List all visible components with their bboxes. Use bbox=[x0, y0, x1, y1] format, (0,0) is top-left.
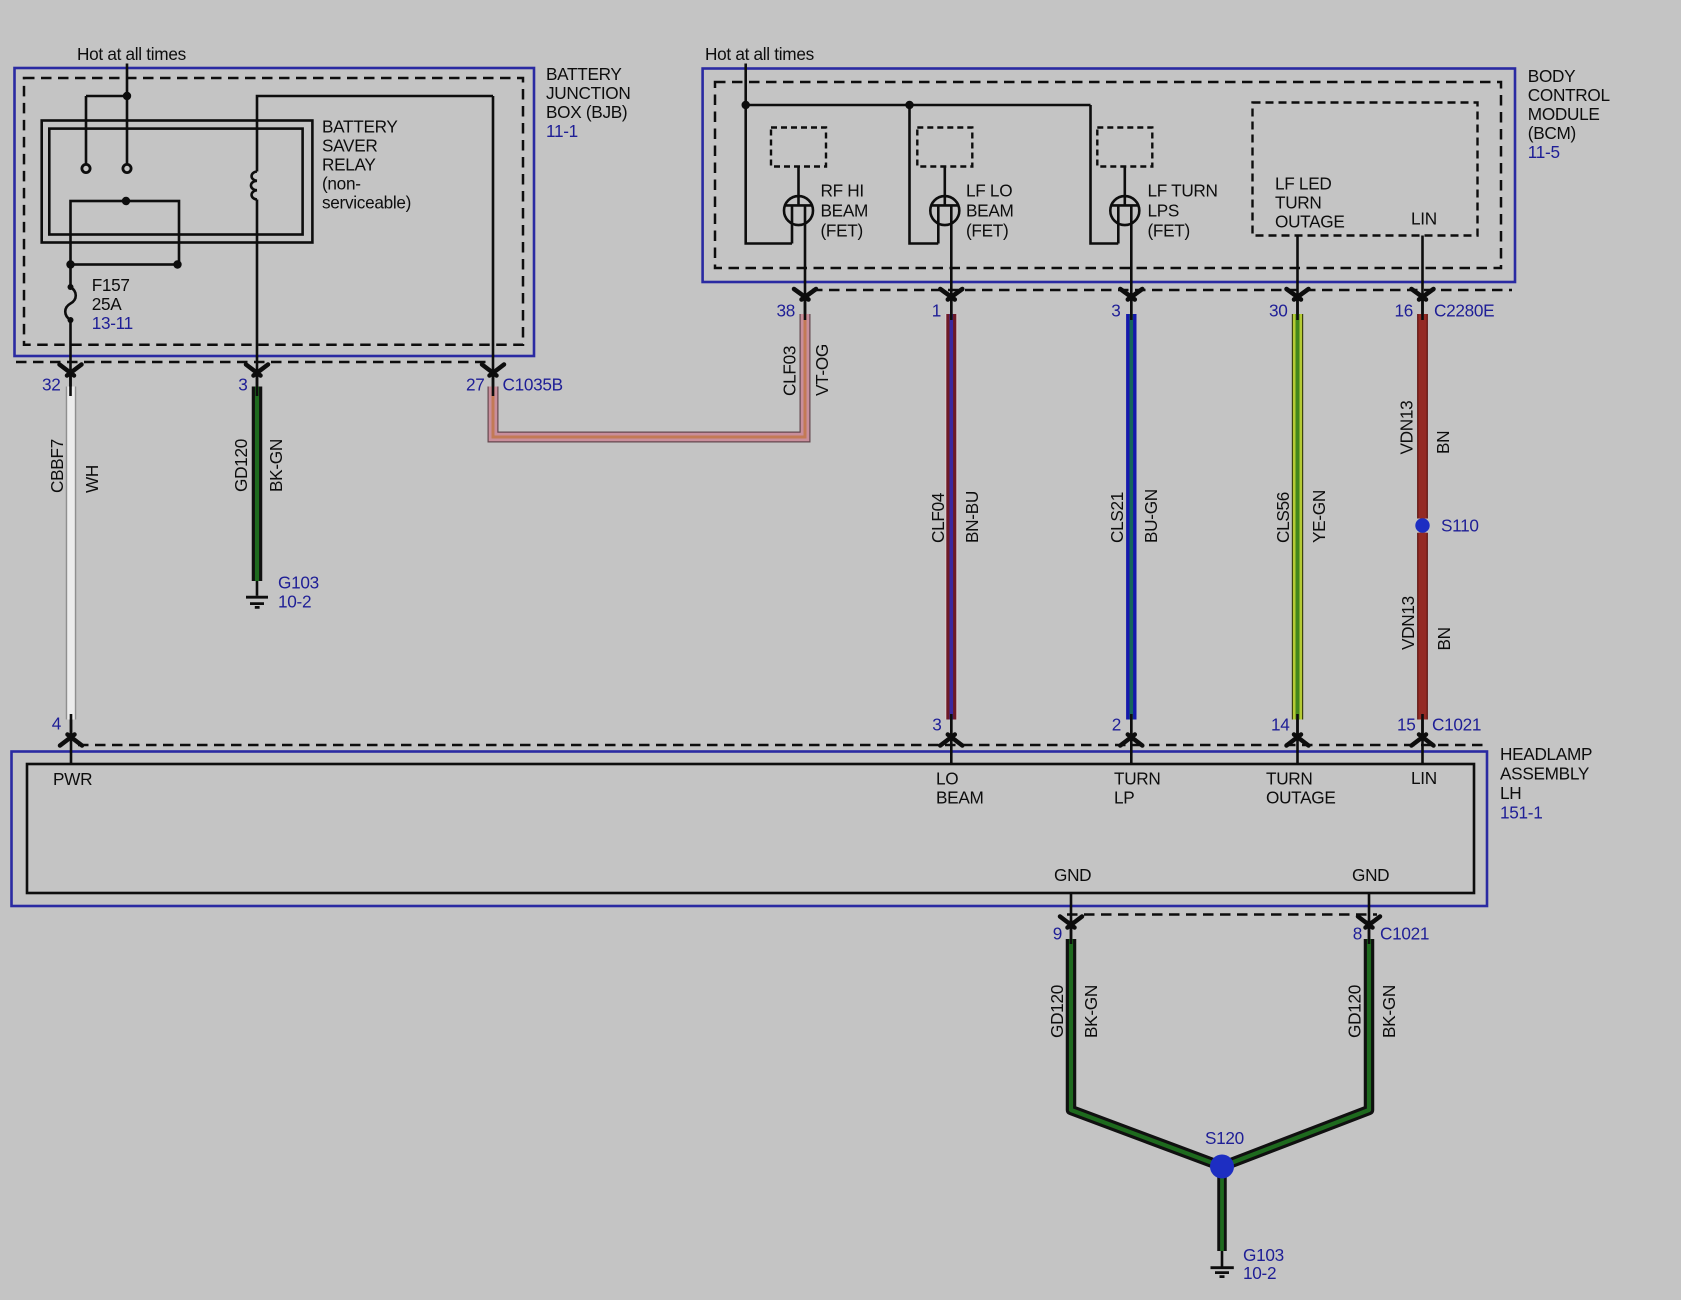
wire: source feed FET1 bbox=[746, 105, 792, 244]
svg-text:S110: S110 bbox=[1441, 516, 1479, 536]
body control module (BCM) blue enclosure bbox=[703, 69, 1515, 283]
splice S120 bbox=[1210, 1155, 1234, 1179]
stub: pin 3 to interior bbox=[950, 720, 953, 765]
svg-text:13-11: 13-11 bbox=[92, 313, 133, 333]
svg-text:BOX (BJB): BOX (BJB) bbox=[546, 102, 627, 122]
connector row BCM dashed bbox=[812, 289, 1512, 292]
svg-text:OUTAGE: OUTAGE bbox=[1266, 788, 1336, 808]
GND connector dashed row bbox=[1067, 913, 1377, 916]
svg-text:8: 8 bbox=[1353, 924, 1362, 944]
svg-text:GND: GND bbox=[1054, 865, 1091, 885]
svg-text:C1021: C1021 bbox=[1432, 715, 1481, 735]
svg-text:11-1: 11-1 bbox=[546, 121, 578, 141]
gate control dashed box FET3 bbox=[1097, 128, 1152, 167]
relay contact terminal right bbox=[123, 164, 131, 172]
wire: battery feed into BJB bbox=[126, 64, 129, 97]
wire: fuse to pin 32 bbox=[69, 320, 72, 387]
splice S110 bbox=[1415, 518, 1429, 532]
battery junction box (BJB) blue enclosure bbox=[15, 68, 535, 356]
FET LF TURN LPS (output driver) bbox=[1110, 196, 1139, 243]
headlamp connector dashed row bbox=[78, 744, 1483, 747]
svg-text:CLF03: CLF03 bbox=[780, 346, 800, 396]
wire: LIN output to pin 16 bbox=[1421, 236, 1424, 315]
svg-text:(FET): (FET) bbox=[966, 221, 1008, 241]
svg-text:OUTAGE: OUTAGE bbox=[1275, 212, 1345, 232]
svg-text:LP: LP bbox=[1114, 788, 1134, 808]
svg-text:PWR: PWR bbox=[53, 769, 92, 789]
svg-text:BU-GN: BU-GN bbox=[1141, 489, 1161, 543]
svg-text:BN-BU: BN-BU bbox=[962, 491, 982, 543]
pin 2 arrow bbox=[1120, 735, 1142, 746]
pin 3 arrow (headlamp) bbox=[940, 735, 962, 746]
svg-text:LPS: LPS bbox=[1148, 201, 1180, 221]
pin 38 arrow bbox=[794, 289, 816, 300]
FET LF LO BEAM (output driver) bbox=[930, 196, 959, 243]
svg-text:MODULE: MODULE bbox=[1528, 104, 1600, 124]
wire: source feed FET3 bbox=[1091, 105, 1119, 244]
headlamp assembly LH blue enclosure bbox=[12, 752, 1488, 907]
BJB dashed boundary bbox=[24, 78, 523, 345]
pin 9 arrow bbox=[1060, 917, 1082, 928]
svg-text:C2280E: C2280E bbox=[1434, 301, 1494, 321]
wire: FET3 drain to pin 3 bbox=[1130, 205, 1133, 314]
wire: S120 to G103 tail bbox=[1217, 1167, 1227, 1252]
wire GD120 BK-GN: pin 3 to G103 bbox=[252, 387, 263, 582]
wire CLS56 YE-GN: BCM pin 30 to headlamp pin 14 bbox=[1292, 314, 1303, 720]
svg-text:151-1: 151-1 bbox=[1500, 803, 1542, 823]
svg-text:WH: WH bbox=[82, 465, 102, 493]
pin 4 arrow bbox=[60, 735, 82, 746]
wire VDN13 BN upper: BCM pin 16 to S110 bbox=[1417, 314, 1428, 519]
wire CLS21 BU-GN: BCM pin 3 to headlamp pin 2 bbox=[1126, 314, 1136, 720]
svg-text:BK-GN: BK-GN bbox=[1379, 985, 1399, 1038]
FET LF LO BEAM gate lead bbox=[943, 167, 946, 206]
pin 8 arrow bbox=[1358, 917, 1380, 928]
svg-text:BEAM: BEAM bbox=[821, 201, 869, 221]
svg-text:BN: BN bbox=[1434, 627, 1454, 650]
svg-text:SAVER: SAVER bbox=[322, 136, 378, 156]
svg-text:ASSEMBLY: ASSEMBLY bbox=[1500, 764, 1590, 784]
svg-text:3: 3 bbox=[1111, 301, 1120, 321]
svg-text:15: 15 bbox=[1397, 715, 1416, 735]
LF LED TURN OUTAGE dashed module box bbox=[1253, 103, 1478, 236]
svg-text:LH: LH bbox=[1500, 783, 1521, 803]
svg-text:LIN: LIN bbox=[1411, 768, 1437, 788]
headlamp assembly inner box bbox=[27, 764, 1474, 893]
svg-text:CLS21: CLS21 bbox=[1107, 492, 1127, 543]
wire: FET2 drain to pin 1 bbox=[950, 205, 953, 314]
svg-text:JUNCTION: JUNCTION bbox=[546, 83, 631, 103]
pin 16 arrow bbox=[1412, 289, 1434, 300]
svg-text:30: 30 bbox=[1269, 301, 1288, 321]
wire: pin 27 riser bbox=[492, 96, 495, 387]
svg-text:RELAY: RELAY bbox=[322, 155, 376, 175]
svg-text:(FET): (FET) bbox=[821, 221, 863, 241]
svg-text:BK-GN: BK-GN bbox=[266, 439, 286, 492]
BCM dashed boundary bbox=[715, 82, 1501, 268]
FET RF HI BEAM gate lead bbox=[797, 167, 800, 206]
svg-text:serviceable): serviceable) bbox=[322, 193, 411, 213]
svg-text:TURN: TURN bbox=[1275, 193, 1322, 213]
svg-text:VDN13: VDN13 bbox=[1398, 596, 1418, 650]
connector row BJB dashed bbox=[16, 361, 490, 364]
stub: GND right bbox=[1368, 893, 1371, 939]
svg-text:GD120: GD120 bbox=[231, 439, 251, 492]
stub: GND left bbox=[1070, 893, 1073, 939]
svg-text:(BCM): (BCM) bbox=[1528, 123, 1576, 143]
svg-text:10-2: 10-2 bbox=[278, 592, 311, 612]
svg-text:CONTROL: CONTROL bbox=[1528, 85, 1610, 105]
svg-text:VT-OG: VT-OG bbox=[812, 344, 832, 396]
svg-text:TURN: TURN bbox=[1266, 769, 1313, 789]
relay contact terminal left bbox=[82, 164, 90, 172]
svg-text:1: 1 bbox=[932, 301, 941, 321]
svg-text:GD120: GD120 bbox=[1047, 985, 1067, 1038]
wire: feed to relay contacts bbox=[86, 96, 127, 165]
wire: coil to pin 3 bbox=[256, 200, 259, 387]
FET RF HI BEAM (output driver) bbox=[784, 196, 813, 243]
svg-text:16: 16 bbox=[1394, 301, 1413, 321]
stub: pin 14 to interior bbox=[1296, 720, 1299, 765]
node: switched output junction bbox=[122, 197, 130, 205]
svg-text:LF LED: LF LED bbox=[1275, 174, 1331, 194]
wire CLF03 VT-OG: pin 27 to BCM pin 38 bbox=[493, 314, 805, 437]
svg-text:Hot at all times: Hot at all times bbox=[705, 44, 814, 64]
svg-text:S120: S120 bbox=[1205, 1128, 1244, 1148]
wire: relay switched output loop bbox=[71, 201, 180, 265]
svg-text:32: 32 bbox=[42, 375, 61, 395]
node: loop left junction bbox=[66, 260, 74, 268]
pin 3 arrow bbox=[246, 365, 268, 376]
gate control dashed box FET2 bbox=[917, 128, 972, 167]
node: bus junction A bbox=[742, 101, 750, 109]
svg-text:25A: 25A bbox=[92, 294, 123, 314]
svg-text:BODY: BODY bbox=[1528, 66, 1576, 86]
relay coil bbox=[251, 172, 257, 200]
svg-text:3: 3 bbox=[238, 375, 247, 395]
svg-text:CLF04: CLF04 bbox=[928, 492, 948, 543]
svg-text:BN: BN bbox=[1433, 431, 1453, 454]
svg-text:10-2: 10-2 bbox=[1243, 1263, 1276, 1283]
ground G103 (lower) bbox=[1211, 1251, 1234, 1277]
svg-text:9: 9 bbox=[1053, 924, 1062, 944]
wire VDN13 BN lower: S110 to headlamp pin 15 bbox=[1417, 533, 1428, 720]
svg-text:LF TURN: LF TURN bbox=[1148, 181, 1218, 201]
node: bus junction B bbox=[905, 101, 913, 109]
pin lead overlays (thin leads over wire band ends) bbox=[71, 296, 1423, 944]
svg-text:F157: F157 bbox=[92, 275, 130, 295]
gate control dashed box FET1 bbox=[771, 128, 826, 167]
svg-text:2: 2 bbox=[1112, 715, 1121, 735]
svg-text:CLS56: CLS56 bbox=[1273, 492, 1293, 543]
FET LF TURN LPS gate lead bbox=[1124, 167, 1127, 206]
stub: pin 15 to interior bbox=[1421, 720, 1424, 765]
wire: battery feed into BCM bbox=[744, 64, 747, 106]
svg-text:14: 14 bbox=[1271, 715, 1290, 735]
svg-text:38: 38 bbox=[776, 301, 795, 321]
battery saver relay outer box bbox=[42, 121, 313, 243]
svg-text:C1021: C1021 bbox=[1380, 924, 1429, 944]
svg-text:LIN: LIN bbox=[1411, 209, 1437, 229]
wire: internal supply bus bbox=[746, 104, 1091, 107]
svg-text:YE-GN: YE-GN bbox=[1309, 490, 1329, 543]
fuse F157 25A bbox=[65, 287, 76, 320]
svg-text:HEADLAMP: HEADLAMP bbox=[1500, 744, 1592, 764]
wire CLF04 BN-BU: BCM pin 1 to headlamp pin 3 bbox=[945, 314, 957, 720]
pin 27 arrow bbox=[482, 365, 504, 376]
svg-text:(non-: (non- bbox=[322, 174, 361, 194]
wire: turn outage output to pin 30 bbox=[1296, 236, 1299, 315]
svg-text:BATTERY: BATTERY bbox=[322, 117, 398, 137]
svg-text:BK-GN: BK-GN bbox=[1081, 985, 1101, 1038]
wire: FET1 drain to pin 38 bbox=[804, 205, 807, 314]
stub: pin 2 to interior bbox=[1130, 720, 1133, 765]
svg-text:BEAM: BEAM bbox=[936, 788, 984, 808]
svg-text:VDN13: VDN13 bbox=[1397, 401, 1417, 455]
svg-text:LO: LO bbox=[936, 769, 958, 789]
wire: loop to fuse bbox=[69, 265, 72, 288]
svg-text:(FET): (FET) bbox=[1148, 221, 1190, 241]
battery saver relay inner box bbox=[49, 129, 302, 235]
svg-text:G103: G103 bbox=[278, 573, 319, 593]
svg-text:11-5: 11-5 bbox=[1528, 142, 1560, 162]
svg-text:GD120: GD120 bbox=[1345, 985, 1365, 1038]
wire CBBF7 WH: pin 32 to headlamp pin 4 bbox=[66, 387, 77, 720]
svg-text:GND: GND bbox=[1352, 865, 1389, 885]
ground G103 (upper) bbox=[246, 581, 268, 607]
svg-text:BEAM: BEAM bbox=[966, 201, 1014, 221]
node: loop right junction bbox=[173, 260, 181, 268]
pin 30 arrow bbox=[1287, 289, 1309, 300]
svg-text:27: 27 bbox=[466, 375, 485, 395]
svg-text:RF HI: RF HI bbox=[821, 181, 864, 201]
pin 3 arrow (BCM) bbox=[1120, 289, 1142, 300]
wire GD120 BK-GN: headlamp pin 8 to S120 bbox=[1222, 939, 1369, 1167]
svg-text:CBBF7: CBBF7 bbox=[47, 439, 67, 493]
svg-text:LF LO: LF LO bbox=[966, 181, 1012, 201]
svg-text:4: 4 bbox=[52, 714, 62, 734]
node: feed junction bbox=[123, 92, 131, 100]
svg-text:BATTERY: BATTERY bbox=[546, 64, 622, 84]
pin 1 arrow bbox=[940, 289, 962, 300]
wire: coil feed branch bbox=[257, 96, 493, 172]
svg-text:Hot at all times: Hot at all times bbox=[77, 44, 186, 64]
wire GD120 BK-GN: headlamp pin 9 to S120 bbox=[1071, 939, 1222, 1167]
pin 14 arrow bbox=[1287, 735, 1309, 746]
svg-text:C1035B: C1035B bbox=[503, 375, 563, 395]
wire: source feed FET2 bbox=[910, 105, 939, 244]
svg-text:G103: G103 bbox=[1243, 1245, 1284, 1265]
svg-text:3: 3 bbox=[932, 715, 941, 735]
stub: pin 4 to interior bbox=[70, 720, 73, 765]
svg-text:TURN: TURN bbox=[1114, 769, 1161, 789]
pin 15 arrow bbox=[1412, 735, 1434, 746]
pin 32 arrow bbox=[60, 365, 82, 376]
